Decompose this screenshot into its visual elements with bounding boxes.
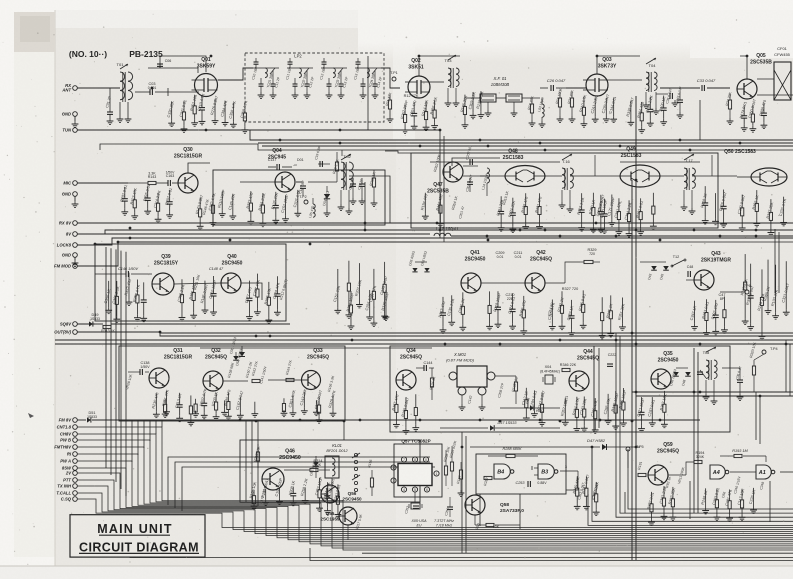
component cluster right of B3: [576, 476, 578, 488]
wire Q02 top: [419, 56, 460, 76]
component cluster under Q49: [603, 199, 605, 214]
wire vertical x636: [635, 96, 637, 560]
terminal C.SQ: [73, 497, 78, 502]
wire box divider x594: [593, 346, 595, 432]
wire LPF output: [381, 68, 400, 88]
diode cluster D43 D45: [651, 266, 657, 270]
wire IF rail top: [385, 151, 411, 153]
wire junction 8V drop: [364, 182, 366, 230]
wire nested return: [182, 467, 435, 511]
component cluster under Q46: [253, 490, 255, 496]
wire bottom bus extra 2: [130, 521, 793, 558]
LPF section 4: [355, 67, 381, 69]
resistor R16 2.2K: [335, 162, 338, 171]
wire Q01 drain to LPF: [218, 68, 253, 80]
wire staircase: [77, 486, 793, 532]
wire Q49 to T17: [660, 175, 684, 177]
wire left vertical bundle: [105, 247, 107, 468]
terminal TUN: [73, 128, 78, 133]
wire staircase: [77, 493, 793, 530]
capacitor C18 18P: [296, 181, 302, 183]
terminal 2V: [73, 471, 78, 476]
wire bus y140: [250, 130, 793, 140]
resistor R143 3.3K: [128, 182, 148, 184]
box row3 left: [95, 244, 286, 321]
wire staircase: [77, 454, 793, 542]
gate B3: [538, 464, 554, 479]
box around Q04 subcircuit: [213, 170, 385, 225]
component cluster right edge row3: [744, 254, 746, 282]
gate B4: [494, 464, 510, 479]
wire bus y333: [160, 332, 793, 334]
wire rail drop: [155, 420, 157, 434]
wire rail drop: [161, 420, 163, 427]
component cluster under T04: [630, 101, 632, 120]
wire rail drop: [131, 420, 133, 462]
ground at GND terminal: [74, 116, 76, 121]
resistor R34 47K: [571, 92, 573, 98]
underline MAIN: [99, 534, 170, 536]
test point T.P2: [304, 200, 308, 204]
wire right drop to bundle: [620, 396, 793, 513]
component cluster under Q32: [203, 393, 205, 403]
wire bottom bus extra 3: [310, 548, 793, 561]
terminal PW B: [73, 438, 78, 443]
transistor Q54 upper: [321, 485, 339, 503]
wire T16 to Q49: [570, 175, 620, 177]
diode D47 H582: [470, 446, 600, 448]
transistor Q58 2SA733P: [465, 495, 485, 515]
capacitor C304: [467, 181, 473, 183]
capacitor C06: [159, 64, 161, 68]
box Q46 region: [240, 440, 420, 502]
wire staircase: [77, 447, 793, 544]
component cluster T17 right: [704, 186, 706, 203]
terminal OUT 8V: [73, 330, 78, 335]
terminal TX INH: [73, 484, 78, 489]
capacitor C202 601: [463, 165, 478, 167]
component cluster under Q44: [564, 398, 566, 420]
component cluster right of T16: [581, 193, 583, 210]
wire staircase: [77, 480, 793, 534]
capacitor C01: [109, 88, 111, 112]
wire left vertical bundle: [125, 252, 127, 496]
wire Q05 collector up: [740, 56, 747, 79]
component cluster under Q47: [424, 193, 426, 213]
wire Q32-Q33: [223, 380, 248, 382]
wire IF verticals: [594, 155, 596, 176]
wire right box pair: [774, 229, 776, 293]
component cluster under Q35: [641, 397, 643, 412]
wire bus y340: [55, 339, 793, 341]
wire into Q03: [566, 87, 586, 89]
wire vertical x632: [631, 180, 633, 560]
wire Q30 collector: [188, 163, 210, 173]
wire Q50 out: [737, 176, 751, 178]
title box: [70, 515, 205, 557]
wire staircase: [77, 427, 793, 550]
resistor R11 47K: [389, 95, 391, 100]
terminal 8V: [73, 232, 78, 237]
capacitor C163: [167, 180, 169, 186]
component cluster under Q48: [500, 196, 502, 211]
filter box LP2 dashed: [245, 53, 384, 122]
wire nested return: [175, 462, 430, 508]
wire Q05 emitter right: [757, 94, 793, 96]
wire IF bias rail: [430, 161, 560, 163]
component cluster under Q03: [583, 97, 585, 108]
wire staircase: [77, 440, 793, 546]
wire staircase: [77, 499, 793, 527]
inductor L05: [313, 204, 315, 208]
diode D08 H532: [530, 405, 534, 410]
wire right drop to bundle: [616, 396, 793, 517]
diode D49: [77, 323, 88, 325]
transistor Q55 2SC1959: [339, 507, 357, 525]
terminal SQ8V: [73, 322, 78, 327]
box row4 right: [390, 346, 730, 432]
capacitor C28 0.047: [656, 93, 668, 95]
relay contacts: [354, 453, 357, 456]
wire left vertical bundle: [110, 248, 112, 475]
wire A4 to A1: [730, 471, 756, 473]
wire bus y348: [200, 347, 432, 349]
wire Q48 to T16: [545, 175, 562, 177]
wire rail drop: [149, 420, 151, 441]
wire drop Q59 area: [624, 492, 626, 513]
wire Q47 to Q48: [463, 175, 505, 177]
component cluster under Q31: [155, 393, 157, 411]
capacitor C43: [679, 92, 681, 100]
terminal T.CALL: [73, 491, 78, 496]
LPF section 2: [287, 67, 313, 69]
wire Q03 top: [597, 56, 640, 74]
wire vertical x697 pair: [693, 348, 695, 513]
resistor R37 22K: [729, 94, 731, 100]
resistor cluster under Q01: [171, 102, 173, 121]
terminal FM MOD: [73, 264, 78, 269]
terminal CNT1.8: [73, 425, 78, 430]
wire Q04 base: [240, 181, 275, 183]
capacitor C06b: [722, 367, 740, 369]
component cluster under Q42: [551, 299, 553, 323]
diode D52: [313, 462, 319, 466]
wire vertical x756 bottom: [755, 392, 757, 440]
wire drop B box: [479, 494, 481, 526]
capacitor C252 C251: [413, 505, 419, 507]
component cluster mic input: [124, 187, 126, 199]
component cluster Q41Q42 mid: [489, 291, 491, 305]
component cluster under Q34: [395, 391, 397, 404]
wire bus y146: [262, 145, 793, 147]
LPF section 3: [321, 67, 347, 69]
component cluster Q46 right: [319, 478, 321, 490]
wire bus y344: [55, 343, 793, 345]
wire T17 to Q50: [692, 175, 737, 177]
wire staircase: [77, 434, 793, 548]
wire verticals mid bottom: [591, 447, 593, 470]
wire gate B out: [560, 470, 578, 472]
gate A1: [756, 465, 771, 479]
gate A4: [710, 465, 725, 479]
ground at GND 2: [74, 196, 76, 201]
wire bottom bus extra 1: [362, 552, 793, 554]
capacitor C26: [540, 87, 548, 89]
test point T.P6: [745, 290, 749, 294]
wire vertical x440: [439, 130, 441, 238]
terminal GND: [73, 112, 78, 117]
test point T.P1: [392, 77, 396, 81]
diode D04: [326, 186, 328, 192]
wire drops under squelch box: [245, 421, 247, 502]
terminal PTT: [73, 478, 78, 483]
wire staircase: [77, 473, 793, 536]
wire rail drop: [143, 420, 145, 448]
varactor diode pair: [673, 372, 679, 376]
underline CIRCUIT DIAGRAM: [79, 552, 199, 554]
wire nested return: [168, 457, 430, 506]
wire vertical x368: [367, 56, 369, 130]
capacitor C30 C31: [352, 178, 354, 184]
box gates B: [476, 454, 566, 494]
component cluster Q44 right: [607, 394, 609, 418]
component cluster under gates A: [705, 488, 707, 507]
wire T02 out right: [349, 176, 390, 223]
wire rail drop: [137, 420, 139, 455]
wire A1 out: [780, 471, 793, 473]
wire Q01 gate: [168, 91, 199, 93]
diode D51: [77, 419, 86, 421]
inductor L14: [480, 175, 487, 177]
LPF section 1: [253, 67, 279, 69]
component cluster under Q39: [108, 281, 110, 307]
terminal RX 8V: [73, 221, 78, 226]
wire staircase: [77, 468, 793, 538]
diode pair D03 D53: [412, 268, 417, 272]
wire Q43 couplings: [640, 261, 654, 263]
resistor R135 180: [514, 382, 517, 391]
diode D50: [239, 352, 245, 357]
inductor L03: [541, 98, 543, 104]
wire Q41 Q42 couplings: [481, 282, 525, 284]
capacitor C19 6.8P: [318, 163, 330, 165]
wire bus y396: [636, 395, 793, 397]
wire Q57 box right pair: [461, 432, 463, 553]
wire right drop to bundle: [588, 494, 793, 525]
wire left vertical bundle: [115, 249, 117, 482]
component cluster under Q02: [404, 105, 406, 115]
terminal FMTH8V: [73, 445, 78, 450]
diode D57 1S533: [440, 427, 488, 429]
capacitor C217 C218 cluster: [601, 297, 603, 312]
box row4 left: [119, 346, 345, 421]
wire left vertical bundle: [120, 251, 122, 489]
capacitor C33: [660, 87, 700, 89]
stray ink mark left margin: [28, 413, 34, 418]
box Q57 outer: [394, 444, 442, 497]
resistor R18 47K: [531, 98, 533, 104]
terminal MIC: [73, 181, 78, 186]
component cluster between boxes: [337, 269, 339, 307]
terminal FM 8V: [73, 418, 78, 423]
wire Q01 top feed: [160, 56, 206, 72]
wire vertical x700: [699, 100, 701, 140]
terminal GND 2: [73, 192, 78, 197]
component cluster under Q41: [442, 297, 444, 313]
wire Q04 out right: [296, 181, 303, 183]
wire right drop to bundle: [592, 447, 793, 521]
terminal GND 3: [73, 253, 78, 258]
wire right drop to bundle: [628, 449, 793, 509]
component cluster Q40 right: [248, 281, 250, 299]
component cluster T03 right: [464, 95, 466, 107]
crystal X06: [414, 492, 416, 502]
terminal LOCK8: [73, 243, 78, 248]
resistor R328 1K: [373, 170, 375, 178]
varicap cluster TL02: [525, 388, 527, 400]
ground at GND 3: [74, 257, 76, 260]
wire row3 left joins: [174, 283, 221, 284]
test point T.P4: [762, 350, 766, 354]
box IF strip: [411, 153, 718, 228]
wire vertical right edge: [785, 340, 787, 392]
ground row under box4: [164, 399, 166, 404]
terminal 8SW: [73, 466, 78, 471]
capacitor trimmer: [700, 370, 706, 378]
capacitor C03: [135, 91, 150, 93]
wire bus y244: [430, 241, 793, 243]
wire bus y143: [258, 142, 793, 144]
component cluster under Q50: [741, 195, 743, 208]
test point T.P5: [626, 447, 630, 451]
terminal PW A: [73, 459, 78, 464]
terminal RX ANT: [73, 86, 78, 91]
terminal RI: [73, 452, 78, 457]
wire bus y392: [632, 391, 793, 393]
component cluster under Q05: [743, 105, 745, 115]
component cluster under Q30: [199, 198, 201, 209]
component cluster under Q59: [650, 492, 652, 504]
wire vertical x616: [615, 333, 617, 396]
terminal CH8V: [73, 432, 78, 437]
component cluster under Q43: [694, 301, 696, 324]
resistor R19 100K: [559, 92, 561, 98]
diode D30: [233, 356, 239, 360]
wire staircase: [77, 461, 793, 540]
wire Q47 collector: [452, 158, 500, 166]
inductor L17: [95, 233, 430, 235]
component cluster under Q40: [181, 279, 183, 294]
component cluster under Q33: [292, 394, 294, 410]
capacitor C137: [268, 166, 276, 168]
wire bus y150: [100, 144, 793, 150]
component cluster under Q04: [250, 191, 252, 203]
